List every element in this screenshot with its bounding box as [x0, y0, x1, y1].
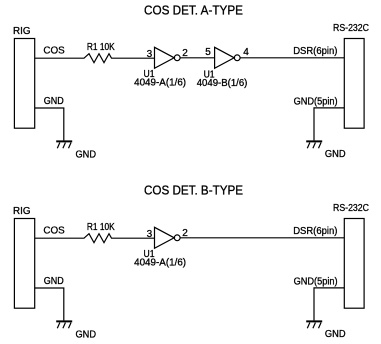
svg-text:4049-B(1/6): 4049-B(1/6) [197, 78, 248, 89]
svg-text:2: 2 [182, 48, 188, 59]
svg-text:2: 2 [182, 228, 188, 239]
svg-text:4: 4 [243, 47, 249, 58]
svg-text:R1 10K: R1 10K [87, 42, 115, 53]
svg-text:5: 5 [205, 47, 211, 58]
svg-text:GND: GND [44, 96, 64, 107]
svg-text:COS DET. B-TYPE: COS DET. B-TYPE [144, 183, 243, 198]
svg-text:COS DET. A-TYPE: COS DET. A-TYPE [144, 3, 243, 18]
svg-text:GND(5pin): GND(5pin) [294, 277, 338, 288]
svg-text:DSR(6pin): DSR(6pin) [293, 226, 337, 237]
svg-text:RIG: RIG [13, 206, 31, 217]
svg-text:4049-A(1/6): 4049-A(1/6) [134, 258, 186, 269]
svg-text:COS: COS [43, 226, 65, 237]
svg-text:GND(5pin): GND(5pin) [294, 97, 338, 108]
svg-text:RS-232C: RS-232C [333, 23, 369, 34]
svg-text:GND: GND [325, 149, 346, 160]
svg-text:4049-A(1/6): 4049-A(1/6) [134, 78, 186, 89]
svg-text:3: 3 [147, 49, 153, 60]
svg-text:GND: GND [325, 329, 346, 340]
svg-text:RIG: RIG [13, 26, 31, 37]
svg-text:GND: GND [76, 150, 97, 161]
svg-text:3: 3 [147, 229, 153, 240]
svg-text:GND: GND [76, 330, 97, 341]
svg-text:DSR(6pin): DSR(6pin) [293, 46, 337, 57]
svg-text:RS-232C: RS-232C [333, 203, 369, 214]
svg-text:COS: COS [43, 46, 65, 57]
svg-text:GND: GND [44, 276, 64, 287]
svg-text:R1 10K: R1 10K [87, 222, 115, 233]
